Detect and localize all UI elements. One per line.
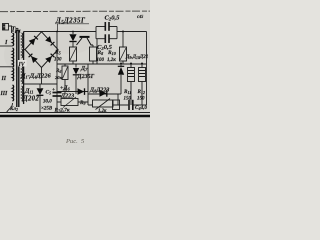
secondary vertical wire bbox=[23, 32, 25, 105]
transistor T1 bbox=[77, 37, 94, 45]
wire bottom right bbox=[118, 104, 147, 106]
node dot D5 top bbox=[72, 31, 74, 33]
resistor R8 body bbox=[92, 45, 94, 47]
wire x97 caps to mid bus bbox=[96, 39, 98, 64]
svg-text:С44,0: С44,0 bbox=[135, 105, 147, 111]
capacitor C4 bbox=[129, 100, 133, 110]
transformer Tr1 core bbox=[17, 30, 19, 107]
resistor R6 body bbox=[64, 64, 66, 67]
wire mid bus bbox=[57, 63, 147, 65]
wire right edge vertical bbox=[146, 32, 148, 106]
svg-text:100: 100 bbox=[97, 58, 105, 63]
wire winding III bottom exit curve bbox=[7, 103, 13, 113]
diode D3 bbox=[29, 54, 38, 63]
resistor R10 body bbox=[122, 32, 124, 48]
wire top bus right bbox=[117, 31, 147, 33]
diode D7 bbox=[73, 64, 79, 95]
svg-text:Д9,Д10Д21: Д9,Д10Д21 bbox=[125, 55, 148, 60]
svg-text:Рис. 5: Рис. 5 bbox=[65, 138, 85, 145]
capacitor C2 bbox=[96, 22, 117, 31]
wire bridge bottom to lower bus bbox=[41, 68, 43, 85]
wire lower bus left bbox=[57, 91, 88, 93]
node dots mid bus bbox=[130, 63, 132, 65]
wire tap to x=0 upper bbox=[0, 45, 13, 47]
wire tap to x=0 lower bbox=[0, 66, 13, 68]
svg-text:R9: R9 bbox=[80, 100, 85, 106]
svg-text:R11: R11 bbox=[124, 89, 131, 95]
svg-text:С20,5: С20,5 bbox=[105, 15, 121, 22]
wire loop left vertical bbox=[87, 64, 89, 106]
capacitor C3 bbox=[96, 34, 117, 43]
node dot top bus bbox=[122, 31, 124, 33]
winding I bbox=[13, 33, 14, 46]
wire loop top edge bbox=[88, 93, 121, 95]
svg-text:R10: R10 bbox=[107, 50, 117, 56]
svg-text:150: 150 bbox=[124, 97, 132, 102]
secondary winding right side bbox=[22, 33, 23, 48]
diode D1 bbox=[29, 36, 38, 45]
diode D2 bbox=[45, 36, 54, 45]
capacitor C5 electrolytic bbox=[53, 93, 62, 97]
diode D8 bbox=[100, 90, 107, 97]
svg-text:С5: С5 bbox=[46, 90, 52, 96]
diode D6 bbox=[78, 88, 85, 95]
diode D5 bbox=[69, 32, 76, 48]
svg-text:II: II bbox=[1, 76, 7, 82]
wire loop bottom edge bbox=[88, 104, 118, 106]
svg-text:30,0: 30,0 bbox=[42, 100, 52, 105]
node dot mid bus right bbox=[120, 63, 122, 65]
svg-text:1,2к: 1,2к bbox=[107, 58, 116, 63]
diode D4 bbox=[45, 54, 54, 63]
bottom bus wire bbox=[0, 112, 150, 114]
wire secondary to lower-left bus bbox=[24, 83, 57, 85]
svg-text:+: + bbox=[52, 87, 55, 93]
svg-text:R6: R6 bbox=[56, 69, 61, 74]
heavy rule below figure bbox=[0, 115, 150, 118]
svg-text:20к: 20к bbox=[54, 75, 63, 80]
svg-text:R5: R5 bbox=[54, 50, 61, 56]
diode D9 bbox=[118, 64, 124, 95]
winding III bbox=[13, 68, 14, 81]
svg-text:Д235Г: Д235Г bbox=[77, 74, 95, 80]
svg-text:IV: IV bbox=[18, 62, 26, 68]
winding IV (left leg bottom) bbox=[13, 85, 14, 101]
resistor R7 body bbox=[61, 99, 78, 106]
svg-text:Д7: Д7 bbox=[80, 66, 88, 72]
wire secondary to bridge left vertex bbox=[24, 49, 26, 51]
svg-text:1,2к: 1,2к bbox=[98, 109, 107, 114]
winding IV label bbox=[18, 60, 27, 68]
winding II bbox=[13, 48, 14, 67]
resistor R9 body bbox=[93, 100, 114, 107]
svg-text:Д8Д223: Д8Д223 bbox=[89, 88, 109, 94]
diode D11 bbox=[37, 84, 44, 113]
wire loop right vertical bbox=[117, 94, 119, 105]
node dot x57 top bbox=[56, 31, 58, 33]
svg-text:R12: R12 bbox=[138, 89, 145, 95]
mains plug X1 bbox=[3, 24, 9, 31]
connector box bbox=[113, 100, 120, 110]
bridge frame D1-D4 bbox=[25, 32, 58, 68]
page tear dashed rule at top bbox=[0, 10, 150, 13]
svg-text:×25В: ×25В bbox=[41, 107, 53, 112]
svg-text:Д11: Д11 bbox=[24, 88, 33, 95]
svg-text:100: 100 bbox=[54, 58, 62, 63]
resistor R5 body bbox=[70, 47, 77, 61]
svg-text:Д1-Д4Д226: Д1-Д4Д226 bbox=[20, 73, 52, 80]
wire vertical long x57 bbox=[56, 32, 58, 113]
wire top bus left bbox=[24, 31, 96, 33]
svg-text:150: 150 bbox=[137, 97, 145, 102]
svg-text:III: III bbox=[0, 91, 8, 97]
svg-text:Кл2: Кл2 bbox=[9, 107, 18, 112]
resistor R12 body striped bbox=[139, 64, 146, 106]
resistor R11 body striped bbox=[128, 64, 135, 106]
svg-text:Д202: Д202 bbox=[22, 96, 39, 103]
svg-text:+Д6: +Д6 bbox=[60, 86, 71, 92]
wire plug to winding I bbox=[9, 26, 12, 33]
capacitor rails bbox=[96, 27, 117, 39]
